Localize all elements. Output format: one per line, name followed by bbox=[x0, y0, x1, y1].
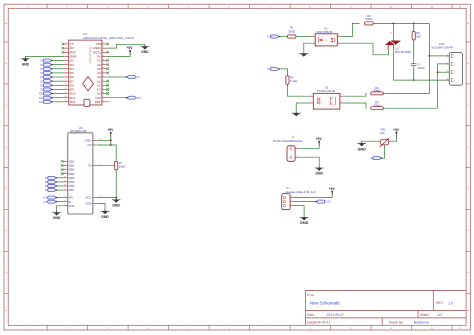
svg-text:D12: D12 bbox=[70, 100, 76, 104]
svg-text:LED-: LED- bbox=[85, 196, 91, 200]
svg-text:Bulatovor: Bulatovor bbox=[414, 321, 430, 325]
svg-text:1: 1 bbox=[289, 157, 290, 159]
svg-text:1: 1 bbox=[378, 140, 379, 142]
svg-text:2: 2 bbox=[313, 41, 314, 43]
svg-text:GND: GND bbox=[101, 215, 109, 219]
svg-text:100nF: 100nF bbox=[417, 66, 425, 70]
svg-text:+5V: +5V bbox=[329, 187, 336, 191]
svg-text:3: 3 bbox=[66, 51, 67, 53]
svg-text:360: 360 bbox=[416, 35, 421, 39]
svg-text:+5V: +5V bbox=[107, 128, 114, 132]
svg-text:New Schematic: New Schematic bbox=[310, 301, 341, 306]
svg-text:1.0: 1.0 bbox=[448, 301, 453, 305]
svg-text:P125-1102A0BS116A2: P125-1102A0BS116A2 bbox=[273, 139, 303, 143]
svg-text:D4: D4 bbox=[45, 176, 49, 180]
svg-text:5: 5 bbox=[65, 204, 66, 206]
svg-text:GND: GND bbox=[85, 202, 91, 206]
svg-text:BT136-600E: BT136-600E bbox=[395, 50, 411, 54]
svg-text:16: 16 bbox=[102, 100, 104, 102]
svg-text:10k: 10k bbox=[380, 131, 385, 135]
svg-text:5.1kΩ: 5.1kΩ bbox=[290, 79, 298, 83]
svg-text:9: 9 bbox=[65, 168, 66, 170]
svg-text:18: 18 bbox=[102, 92, 104, 94]
svg-text:4: 4 bbox=[338, 41, 339, 43]
svg-text:10: 10 bbox=[65, 80, 67, 82]
svg-text:D6: D6 bbox=[45, 184, 49, 188]
svg-text:2017-09-27: 2017-09-27 bbox=[327, 313, 344, 317]
svg-text:D8: D8 bbox=[40, 83, 44, 87]
svg-text:4: 4 bbox=[454, 80, 455, 82]
svg-text:330Ω: 330Ω bbox=[365, 17, 373, 21]
svg-text:3: 3 bbox=[291, 196, 292, 198]
svg-text:6: 6 bbox=[338, 34, 339, 36]
svg-text:GND: GND bbox=[112, 203, 120, 207]
svg-text:2: 2 bbox=[382, 149, 383, 151]
svg-text:D13: D13 bbox=[326, 200, 331, 204]
svg-text:8: 8 bbox=[65, 164, 66, 166]
svg-text:13: 13 bbox=[64, 185, 66, 187]
svg-text:24: 24 bbox=[102, 67, 104, 69]
svg-text:2: 2 bbox=[289, 148, 290, 150]
svg-text:REF: REF bbox=[95, 100, 101, 104]
svg-text:D9: D9 bbox=[40, 88, 44, 92]
svg-text:6: 6 bbox=[66, 63, 67, 65]
svg-text:PC814_DIL04: PC814_DIL04 bbox=[317, 89, 336, 93]
svg-text:20: 20 bbox=[102, 84, 104, 86]
svg-text:Header-Male-2.54_1x3: Header-Male-2.54_1x3 bbox=[286, 190, 316, 194]
svg-text:19: 19 bbox=[102, 88, 104, 90]
svg-text:30: 30 bbox=[102, 42, 104, 44]
svg-text:1: 1 bbox=[454, 56, 455, 58]
svg-text:15: 15 bbox=[65, 100, 67, 102]
svg-text:23: 23 bbox=[102, 71, 104, 73]
svg-text:7: 7 bbox=[66, 67, 67, 69]
svg-text:27: 27 bbox=[102, 55, 104, 57]
svg-text:14: 14 bbox=[64, 189, 66, 191]
svg-text:GND: GND bbox=[141, 50, 149, 54]
svg-text:Sheet:: Sheet: bbox=[420, 313, 429, 317]
svg-text:G: G bbox=[5, 272, 7, 274]
svg-text:28: 28 bbox=[102, 51, 104, 53]
svg-text:D2: D2 bbox=[40, 59, 44, 63]
svg-text:1: 1 bbox=[291, 204, 292, 206]
svg-text:+5V: +5V bbox=[393, 128, 400, 132]
svg-text:A3: A3 bbox=[136, 75, 140, 79]
svg-text:GND: GND bbox=[357, 148, 366, 152]
svg-text:REV:: REV: bbox=[436, 301, 443, 305]
svg-text:8: 8 bbox=[66, 71, 67, 73]
svg-text:1: 1 bbox=[341, 94, 342, 96]
svg-text:13: 13 bbox=[65, 92, 67, 94]
svg-text:DB7: DB7 bbox=[69, 188, 75, 192]
svg-text:12: 12 bbox=[64, 180, 66, 182]
svg-text:17: 17 bbox=[102, 96, 104, 98]
svg-text:T2: T2 bbox=[390, 33, 392, 35]
svg-text:Date:: Date: bbox=[307, 313, 315, 317]
svg-text:EasyEDA V4.9.1: EasyEDA V4.9.1 bbox=[307, 321, 331, 325]
svg-text:D3: D3 bbox=[268, 35, 272, 39]
svg-text:3: 3 bbox=[454, 72, 455, 74]
svg-text:WJ142R-5.08-4P: WJ142R-5.08-4P bbox=[432, 46, 454, 50]
svg-text:7: 7 bbox=[65, 160, 66, 162]
svg-text:2: 2 bbox=[341, 101, 342, 103]
svg-text:+5V: +5V bbox=[87, 143, 92, 147]
svg-text:11: 11 bbox=[64, 176, 66, 178]
svg-text:9: 9 bbox=[66, 75, 67, 77]
svg-text:6: 6 bbox=[65, 200, 66, 202]
svg-text:1/1: 1/1 bbox=[438, 313, 443, 317]
svg-text:ARDUINO-NANO_ARDUINO_NANO: ARDUINO-NANO_ARDUINO_NANO bbox=[83, 36, 135, 40]
svg-text:TITLE:: TITLE: bbox=[307, 294, 315, 297]
svg-text:26: 26 bbox=[102, 59, 104, 61]
svg-text:GND: GND bbox=[22, 62, 30, 66]
svg-text:4: 4 bbox=[311, 94, 312, 96]
svg-text:Drawn By:: Drawn By: bbox=[389, 321, 404, 325]
svg-text:D11: D11 bbox=[39, 96, 44, 100]
svg-text:22: 22 bbox=[102, 75, 104, 77]
svg-text:D5: D5 bbox=[45, 180, 49, 184]
svg-text:A0: A0 bbox=[370, 156, 374, 160]
svg-text:11: 11 bbox=[65, 84, 67, 86]
svg-text:D5: D5 bbox=[40, 71, 44, 75]
svg-text:z: z bbox=[322, 101, 323, 103]
svg-text:10: 10 bbox=[64, 172, 66, 174]
svg-text:GND: GND bbox=[53, 216, 61, 220]
svg-text:G: G bbox=[467, 272, 469, 274]
svg-text:43kΩ: 43kΩ bbox=[374, 104, 382, 108]
svg-text:43kΩ: 43kΩ bbox=[374, 89, 382, 93]
svg-text:2: 2 bbox=[454, 64, 455, 66]
svg-text:29: 29 bbox=[102, 47, 104, 49]
svg-text:D3: D3 bbox=[40, 63, 44, 67]
svg-text:ARDUINO NANO: ARDUINO NANO bbox=[89, 47, 92, 64]
svg-text:+5V: +5V bbox=[127, 46, 134, 50]
svg-text:GND: GND bbox=[300, 221, 309, 225]
svg-text:D12: D12 bbox=[39, 100, 44, 104]
svg-text:T1: T1 bbox=[385, 50, 387, 52]
svg-text:1: 1 bbox=[313, 34, 314, 36]
svg-text:2: 2 bbox=[291, 200, 292, 202]
svg-text:1: 1 bbox=[66, 42, 67, 44]
svg-text:GND: GND bbox=[315, 172, 323, 176]
svg-text:25: 25 bbox=[102, 63, 104, 65]
svg-text:14: 14 bbox=[65, 96, 67, 98]
svg-text:3: 3 bbox=[392, 140, 393, 142]
svg-text:D2: D2 bbox=[268, 67, 272, 71]
svg-text:LED+: LED+ bbox=[85, 138, 92, 142]
svg-text:D7: D7 bbox=[40, 79, 44, 83]
svg-text:D12: D12 bbox=[43, 196, 48, 200]
svg-text:4: 4 bbox=[65, 196, 66, 198]
svg-text:+5V: +5V bbox=[316, 137, 323, 141]
svg-text:D7: D7 bbox=[45, 188, 49, 192]
svg-text:2: 2 bbox=[66, 47, 67, 49]
svg-text:330Ω: 330Ω bbox=[288, 30, 296, 34]
svg-text:D6: D6 bbox=[40, 75, 44, 79]
svg-text:21: 21 bbox=[102, 80, 104, 82]
svg-text:12: 12 bbox=[65, 88, 67, 90]
svg-text:2: 2 bbox=[296, 146, 297, 148]
svg-text:D10: D10 bbox=[39, 92, 44, 96]
svg-text:D11: D11 bbox=[44, 200, 49, 204]
svg-text:xxxxxxxxxxxxxx: xxxxxxxxxxxxxx bbox=[70, 133, 81, 135]
svg-text:1: 1 bbox=[296, 155, 297, 157]
svg-text:WC1602A-PB: WC1602A-PB bbox=[70, 129, 86, 133]
svg-text:3: 3 bbox=[311, 101, 312, 103]
svg-text:D4: D4 bbox=[40, 67, 44, 71]
svg-text:5: 5 bbox=[66, 59, 67, 61]
svg-text:R/W: R/W bbox=[69, 204, 75, 208]
svg-text:10kΩ: 10kΩ bbox=[119, 165, 127, 169]
svg-text:D13: D13 bbox=[136, 96, 141, 100]
svg-text:MOC3052M: MOC3052M bbox=[317, 30, 333, 34]
svg-text:4: 4 bbox=[66, 55, 67, 57]
svg-text:V0: V0 bbox=[88, 163, 92, 167]
